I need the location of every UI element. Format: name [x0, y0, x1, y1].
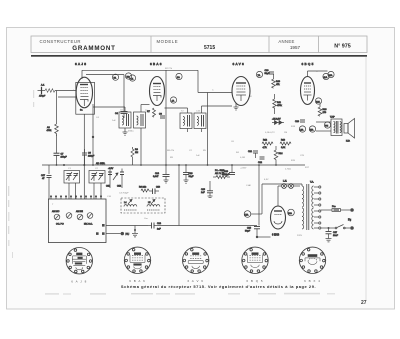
resistor R16 (cathode 6BQ5) — [318, 104, 327, 116]
test point B1 — [112, 74, 118, 80]
resistor R10 (vertical) — [272, 74, 281, 88]
svg-text:2,7kΩ: 2,7kΩ — [285, 169, 291, 171]
capacitor C9 — [82, 149, 95, 165]
svg-text:0,1M: 0,1M — [240, 157, 245, 159]
capacitor C23 — [295, 120, 305, 123]
trimmer group — [106, 169, 124, 188]
variable capacitor CV1 box — [64, 171, 80, 184]
svg-text:10nF: 10nF — [333, 235, 339, 237]
svg-text:PH: PH — [325, 125, 328, 127]
capacitor C13 (osc) — [149, 187, 161, 195]
svg-text:2nF: 2nF — [157, 229, 161, 231]
svg-text:6 B A 6: 6 B A 6 — [129, 279, 146, 283]
test point 11A — [323, 73, 329, 79]
heavy rule under header — [31, 55, 367, 57]
svg-text:220pF: 220pF — [88, 156, 95, 158]
svg-text:220V: 220V — [297, 235, 303, 237]
svg-text:6 BX4: 6 BX4 — [272, 233, 280, 237]
capacitor C16 — [183, 165, 194, 178]
svg-text:MV. S.C.: MV. S.C. — [84, 224, 93, 226]
svg-text:AM BE: AM BE — [76, 210, 83, 213]
svg-text:Schéma général du récepteur 57: Schéma général du récepteur 5715. Voir é… — [121, 284, 316, 289]
rectifier tube 6V4 — [271, 202, 286, 237]
wire tube1 plate down — [92, 104, 94, 165]
test point 12A — [315, 98, 321, 104]
svg-text:GRAMMONT: GRAMMONT — [72, 45, 116, 52]
svg-text:6BQ5: 6BQ5 — [302, 62, 315, 66]
svg-text:T.A.: T.A. — [310, 181, 314, 184]
wire IF stubs — [93, 105, 232, 166]
svg-text:1nF: 1nF — [112, 120, 116, 122]
svg-text:2nF: 2nF — [201, 192, 205, 194]
wire long vertical x166 — [165, 70, 167, 165]
wire top bus grid1 — [82, 70, 198, 79]
svg-text:L.E.: L.E. — [283, 181, 287, 183]
test point PH — [324, 122, 330, 128]
output transformer T4 — [330, 117, 342, 136]
svg-text:12A: 12A — [316, 100, 320, 103]
fuse F1 — [321, 206, 354, 222]
oscillator coil box (dashed) — [121, 198, 165, 213]
keyboard knob K1 — [52, 210, 60, 220]
variable capacitor CV2 box — [89, 171, 105, 184]
speaker HP — [344, 119, 355, 143]
svg-text:AM MC: AM MC — [52, 210, 60, 213]
svg-text:+245V: +245V — [240, 168, 247, 170]
svg-text:6 A J 8: 6 A J 8 — [71, 279, 87, 283]
svg-text:R6 22k: R6 22k — [139, 187, 147, 189]
wire 6BQ5 plate to output transformer — [308, 71, 332, 131]
capacitor C21 — [248, 151, 258, 158]
svg-text:PU: PU — [126, 232, 130, 236]
screen box around tube1 — [76, 82, 95, 114]
svg-text:H.P.: H.P. — [346, 141, 350, 143]
diode detector D1 D2 — [272, 119, 284, 125]
capacitor C18 — [265, 70, 275, 75]
svg-text:18A: 18A — [288, 212, 292, 215]
svg-text:470pF: 470pF — [39, 96, 46, 98]
svg-text:AV. P1: AV. P1 — [215, 172, 222, 175]
svg-text:-1E-0,5V: -1E-0,5V — [272, 119, 281, 121]
test point 18A — [288, 209, 295, 216]
svg-text:15A: 15A — [310, 128, 314, 131]
test point 14A — [299, 126, 305, 132]
socket 6AV6 — [183, 247, 209, 273]
transformer taps — [314, 186, 321, 229]
antenna A1 — [38, 84, 55, 98]
tube 6BQ5 — [301, 77, 315, 105]
pilot lamps L — [282, 181, 294, 189]
svg-text:-8,5V: -8,5V — [108, 168, 114, 170]
capacitor C4 (screen bypass) — [115, 112, 128, 119]
test point 2A — [176, 73, 182, 79]
svg-text:R8 47k: R8 47k — [167, 150, 175, 152]
wire bus2 top (AF section) — [198, 70, 232, 165]
wire B+ feed down — [256, 165, 271, 238]
svg-text:1nF: 1nF — [196, 155, 200, 157]
misc value labels — [52, 68, 318, 237]
svg-text:MODELE: MODELE — [157, 39, 179, 44]
ground (C14 area mid) — [184, 178, 189, 183]
test point 15A — [309, 126, 315, 132]
capacitor C7 — [54, 150, 68, 165]
ground (IF1) — [123, 132, 128, 135]
socket 6BQ5 — [242, 247, 268, 273]
svg-text:455kc: 455kc — [128, 131, 135, 133]
capacitor C26 (filter) — [245, 227, 260, 233]
svg-text:1957: 1957 — [290, 45, 301, 50]
capacitor C24 (series in PU wire) — [148, 223, 162, 231]
wire AVC bus — [42, 162, 305, 170]
capacitor C27 (mains) — [326, 227, 339, 239]
test point B2 — [125, 73, 131, 79]
svg-text:T.HP: T.HP — [330, 117, 335, 119]
svg-text:ANNEE: ANNEE — [278, 39, 294, 44]
svg-text:OC. PO: OC. PO — [56, 224, 64, 226]
wires tuning caps to keyboard — [69, 182, 122, 199]
svg-text:0,1E-0,7V: 0,1E-0,7V — [265, 132, 275, 134]
resistor R1 (vertical, left) — [47, 124, 59, 150]
tube 6BA6 — [150, 77, 165, 106]
capacitor C22 — [258, 157, 265, 164]
wire transformer top — [262, 184, 302, 214]
svg-text:AV. GEN.: AV. GEN. — [96, 162, 106, 165]
header divider 3 — [318, 36, 320, 53]
capacitor C8 — [159, 114, 165, 119]
power transformer T5 — [302, 181, 314, 231]
node: antenna bus junction — [63, 164, 65, 166]
wire left column down — [48, 165, 50, 199]
header divider 2 — [268, 36, 270, 53]
svg-text:C.AF: C.AF — [246, 184, 252, 187]
keyboard labels — [56, 224, 93, 226]
IF transformer T1 primary — [119, 112, 131, 128]
test point C1 — [129, 75, 135, 81]
keyboard knob K3 — [76, 210, 83, 220]
mains switch Int — [321, 225, 354, 230]
svg-text:R2 27k: R2 27k — [165, 68, 173, 70]
resistor R6 (osc) — [139, 187, 149, 193]
svg-text:C3 700pF: C3 700pF — [119, 193, 129, 195]
wire screen feed — [86, 75, 124, 112]
capacitor C17 — [41, 175, 52, 182]
svg-text:6 A V 6: 6 A V 6 — [187, 279, 204, 283]
resistor R7 (6BA6 screen) — [147, 108, 156, 117]
resistor R3 (AVC) — [131, 147, 139, 165]
capacitor C20 — [222, 165, 235, 176]
ground (mains cap) — [326, 239, 332, 242]
wire lamps — [278, 186, 300, 202]
svg-text:6 B Q 5: 6 B Q 5 — [246, 279, 263, 283]
socket 6V4 — [299, 247, 325, 273]
svg-text:68pF: 68pF — [189, 176, 195, 178]
keyboard contact pins — [50, 196, 102, 199]
svg-text:27: 27 — [361, 300, 367, 306]
keyboard knob K4 — [87, 213, 93, 219]
resistor R14 (vertical) — [274, 146, 283, 165]
capacitor C14 — [153, 165, 170, 183]
test point 4A — [170, 97, 176, 103]
svg-text:10A: 10A — [329, 74, 333, 77]
svg-text:1M: 1M — [135, 152, 138, 154]
keyboard knob K2 — [66, 213, 72, 219]
svg-text:6 B X 4: 6 B X 4 — [304, 279, 321, 283]
svg-text:11A: 11A — [324, 76, 328, 79]
keyboard switch box — [48, 199, 106, 243]
wire antenna to tube1 — [55, 91, 76, 125]
tube 6AJ8 (triode-heptode) — [76, 77, 92, 111]
test point 17A — [244, 211, 262, 218]
capacitor C19 — [201, 181, 213, 198]
svg-text:6AV6: 6AV6 — [233, 62, 246, 66]
ground (PU return) — [132, 226, 138, 237]
svg-text:6,3V: 6,3V — [264, 179, 269, 181]
scan fold line — [365, 57, 367, 300]
header table box — [31, 36, 367, 53]
resistor R11 (vertical) — [273, 94, 283, 114]
svg-text:N° 975: N° 975 — [334, 44, 351, 50]
svg-text:1M: 1M — [284, 132, 287, 134]
PU terminal — [106, 232, 129, 236]
socket 6AJ8 — [66, 248, 92, 274]
tube 6AV6 — [232, 77, 250, 106]
resistor R12 — [262, 140, 273, 150]
test point 10A — [328, 71, 334, 77]
svg-text:6BA6: 6BA6 — [150, 62, 163, 66]
wire keyboard to AF (y=226) — [106, 165, 257, 226]
svg-text:P1 - 500k: P1 - 500k — [215, 170, 225, 172]
IF transformer T2 primary — [180, 113, 192, 129]
svg-text:50µF: 50µF — [245, 231, 251, 233]
IF transformer T1 secondary — [134, 112, 146, 128]
IF transformer T2 secondary — [194, 113, 206, 129]
keyboard output terminals — [96, 224, 105, 235]
ground (6AV6 cathode) — [234, 103, 239, 110]
svg-text:5715: 5715 — [204, 45, 215, 51]
svg-text:CONSTRUCTEUR: CONSTRUCTEUR — [40, 39, 81, 44]
potentiometer P1 — [213, 170, 230, 179]
wire tube1 cathode down — [83, 114, 85, 199]
svg-text:150pF: 150pF — [61, 157, 68, 159]
svg-text:6AJ8: 6AJ8 — [75, 62, 87, 66]
header divider 1 — [150, 36, 152, 53]
node: bus junctions — [56, 164, 277, 166]
svg-text:0,047: 0,047 — [153, 176, 159, 178]
test point 7A — [256, 71, 262, 77]
svg-text:50pF: 50pF — [265, 73, 271, 75]
svg-text:17A: 17A — [245, 213, 249, 216]
resistor R13 — [280, 140, 291, 150]
socket 6BA6 — [124, 247, 150, 273]
svg-text:14A: 14A — [300, 128, 304, 131]
